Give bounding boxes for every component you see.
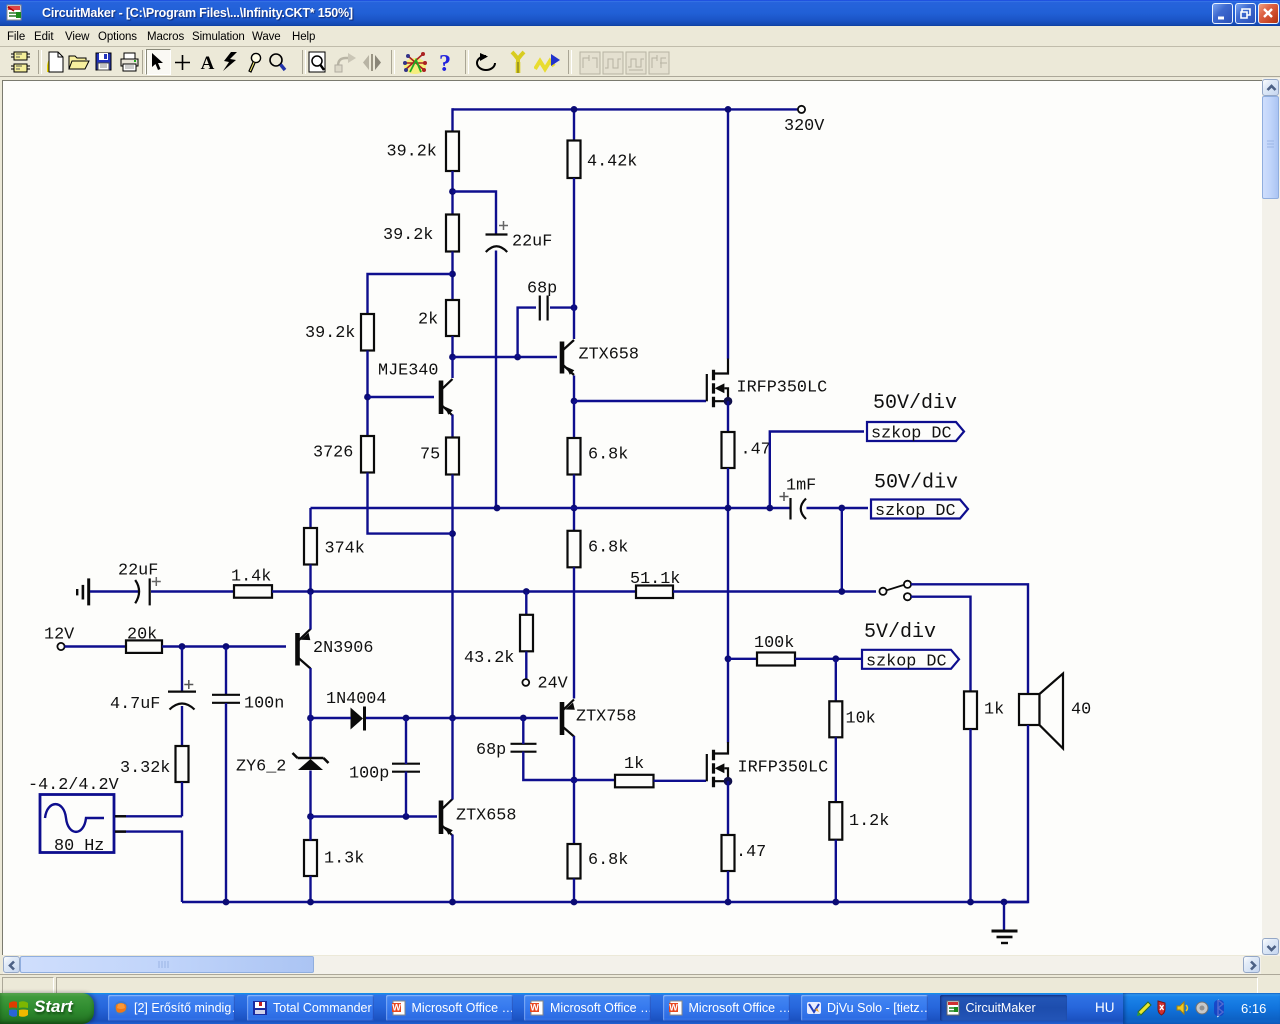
junction IRFP1 source [724, 397, 733, 406]
resistor R 1k output [964, 691, 977, 729]
junction y591 switch col [838, 588, 845, 595]
svg-text:10k: 10k [846, 710, 876, 729]
resistor R 2k [446, 300, 459, 336]
capacitor C 22uF input (polarized) [118, 562, 161, 606]
wire branch to C 22uF [453, 192, 497, 235]
svg-text:MJE340: MJE340 [378, 362, 438, 381]
junction rail 100n [223, 899, 230, 906]
scope flag szkop DC 2 [871, 500, 968, 522]
wire y508 rail [311, 507, 791, 509]
wire R1 to R2 [451, 171, 453, 215]
resistor R 6.8k first [568, 438, 581, 475]
wire ZTX658 emitter down to node [573, 376, 575, 402]
junction base line 100p [403, 813, 410, 820]
wire 2N3906 emitter up to y591 rail [309, 592, 311, 630]
svg-text:3726: 3726 [313, 444, 353, 463]
junction gate line colD [571, 777, 578, 784]
svg-text:4.42k: 4.42k [587, 153, 637, 172]
junction 4.7uF col [179, 643, 186, 650]
resistor R 51.1k [636, 586, 673, 599]
mosfet U IRFP350LC 1 [707, 358, 827, 407]
svg-text:50V/div: 50V/div [874, 472, 958, 495]
svg-text:W: W [392, 1003, 401, 1013]
wire szkop1 feed [770, 432, 864, 509]
wire 10k to 1.2k [835, 737, 837, 802]
svg-text:80 Hz: 80 Hz [54, 837, 104, 856]
source V1 sine [28, 776, 119, 856]
svg-text:22uF: 22uF [512, 233, 552, 252]
wire 100p col bottom [405, 772, 407, 817]
wire source minus terminal to bottom rail [114, 832, 182, 902]
svg-text:39.2k: 39.2k [305, 324, 355, 343]
svg-text:6.8k: 6.8k [588, 851, 628, 870]
resistor R 75 [446, 438, 459, 475]
wire 1k col to bottom rail [969, 729, 971, 902]
wire 6.8k1 top from emitter node [573, 401, 575, 439]
junction 68p tap [514, 354, 521, 361]
wire 1mF right to flag2 [807, 507, 869, 509]
wire ground to 22uF2 [90, 590, 140, 592]
wire 6.8k3 to bottom rail [573, 879, 575, 903]
junction base line 68p col [520, 715, 527, 722]
wire ZTX658b emitter to bottom rail [451, 835, 453, 903]
svg-text:1.2k: 1.2k [849, 812, 889, 831]
wire 68p col bottom to gate line [523, 752, 616, 781]
svg-text:75: 75 [420, 446, 440, 465]
resistor R 39.2k left [361, 314, 374, 351]
svg-text:IRFP350LC: IRFP350LC [738, 759, 829, 778]
svg-text:68p: 68p [527, 280, 557, 299]
wire 100k to flag3 junction [795, 658, 862, 660]
junction rail .47 [725, 899, 732, 906]
wire MJE340 emitter down [451, 415, 453, 439]
wire y591 rail right segment to switch [673, 590, 876, 592]
junction zener base line left [307, 813, 314, 820]
wire 75 down colA crossing y508 to 533.6 and on to y718 [451, 475, 453, 719]
capacitor C 1mF (polarized) [780, 477, 817, 520]
svg-text:szkop DC: szkop DC [875, 502, 956, 521]
svg-text:374k: 374k [325, 540, 365, 559]
resistor R 6.8k third [568, 844, 581, 879]
resistor R 3.32k [176, 746, 189, 782]
diode Z ZY6_2 zener [236, 753, 329, 777]
resistor R 6.8k second [568, 531, 581, 568]
wire MJE340 collector up [451, 357, 453, 378]
transistor Q ZTX658 bottom [441, 799, 516, 836]
svg-text:1k: 1k [984, 701, 1004, 720]
wire ZTX758 collector down [573, 736, 575, 780]
junction rail 6.8k3 [571, 899, 578, 906]
junction top rail colD [571, 106, 578, 113]
wire 1.3k top [309, 817, 311, 841]
svg-text:W: W [669, 1003, 678, 1013]
wire .47 to bottom rail [727, 871, 729, 902]
wire 100p col top [405, 718, 407, 764]
scrollbars [1262, 78, 1280, 956]
wire 2N3906 collector down to diode line [309, 668, 311, 718]
junction base line left [449, 354, 456, 361]
wire base of MJE340 [368, 396, 435, 398]
wire zener col bottom [309, 771, 311, 818]
svg-text:3.32k: 3.32k [120, 759, 170, 778]
scope flag szkop DC 1 [867, 422, 964, 444]
junction y591 43.2k col [523, 588, 530, 595]
wire 100n to bottom rail [225, 703, 227, 902]
wire 68p stub [518, 308, 536, 357]
junction 100n col [223, 643, 230, 650]
wire 4.7uF to 3.32k [181, 706, 183, 747]
svg-text:43.2k: 43.2k [464, 649, 514, 668]
svg-text:22uF: 22uF [118, 562, 158, 581]
junction 100k 10k col [832, 655, 839, 662]
wire colE drain up to rail [727, 109, 729, 358]
window chrome [0, 0, 1280, 26]
resistor R 39.2k top [446, 132, 459, 172]
transistor Q ZTX658 top [562, 340, 639, 375]
svg-text:100k: 100k [754, 634, 794, 653]
wire 6.8k1 to 6.8k2 [573, 475, 575, 532]
capacitor C 100n [212, 647, 284, 714]
junction ZTX658 emitter node [571, 398, 578, 405]
svg-text:6.8k: 6.8k [588, 539, 628, 558]
wire 1.3k to bottom rail [309, 876, 311, 902]
wire 841.8 col down to y591 rail [841, 508, 843, 592]
wire IRFP2 source to .47 [727, 781, 729, 835]
ground left [77, 578, 89, 605]
switch S1 [879, 581, 911, 601]
svg-text:50V/div: 50V/div [873, 392, 957, 415]
junction rail 1k [967, 899, 974, 906]
resistor R .47 top [722, 432, 735, 468]
svg-text:20k: 20k [127, 626, 157, 645]
junction 1mF-switch col [838, 505, 845, 512]
svg-text:51.1k: 51.1k [630, 570, 680, 589]
resistor R 1.3k [304, 840, 364, 876]
wire 10k col top [835, 659, 837, 702]
junction rail 1.3k [307, 899, 314, 906]
wire 374k col from y508 corner [309, 508, 311, 529]
taskbar [0, 993, 1280, 1024]
junction colA 3726 link [449, 530, 456, 537]
svg-text:100n: 100n [244, 695, 284, 714]
wire 6.8k3 top [573, 780, 575, 845]
wire switch top throw to speaker col [911, 584, 1028, 694]
junction base line colA [449, 715, 456, 722]
wire ZTX658b collector up to y718 [451, 718, 453, 800]
wire y591 rail left segment [272, 590, 637, 592]
svg-text:320V: 320V [784, 117, 824, 136]
svg-text:szkop DC: szkop DC [871, 425, 952, 444]
wire 68p col top [522, 718, 524, 744]
wire 3.32k to source top [181, 782, 183, 816]
resistor R 1.4k [234, 585, 272, 598]
svg-text:2k: 2k [418, 311, 438, 330]
wire .47 down colE to IRFP2 drain [727, 468, 729, 743]
wire R2 to 2k [451, 252, 453, 302]
transistor Q MJE340 [378, 362, 453, 416]
wire 1k to IRFP2 gate [654, 780, 707, 782]
node 24V terminal [522, 679, 529, 686]
svg-text:.47: .47 [741, 441, 771, 460]
junction colA to left branch [449, 271, 456, 278]
wire ZTX658 base line [453, 356, 558, 358]
capacitor C 100p [349, 764, 420, 784]
svg-text:100p: 100p [349, 765, 389, 784]
wire ZTX758 base line [365, 717, 559, 719]
resistor R 3726 [361, 436, 374, 473]
transistor Q ZTX758 [562, 700, 636, 737]
junction y591 374k col [307, 588, 314, 595]
junction base line 100p col [403, 715, 410, 722]
svg-text:1.3k: 1.3k [324, 850, 364, 869]
wire 2k to base line [451, 336, 453, 357]
svg-text:5V/div: 5V/div [864, 621, 936, 644]
svg-text:12V: 12V [44, 626, 74, 645]
svg-text:-4.2/4.2V: -4.2/4.2V [28, 776, 119, 795]
junction y508 szkop col [766, 505, 773, 512]
wire 3726 bottom to colA [368, 473, 453, 534]
resistor R 1k gate [615, 775, 654, 788]
wire bottom rail [182, 901, 1028, 903]
wire branch left to 39.2k left column [368, 274, 453, 315]
wire 12V to 20k [65, 645, 127, 647]
svg-text:39.2k: 39.2k [387, 143, 437, 162]
scope flag szkop DC 3 [862, 650, 959, 672]
diode D 1N4004 [326, 690, 386, 731]
wire zener col top [309, 718, 311, 757]
wire colA from rail to R1 [451, 108, 453, 132]
svg-text:68p: 68p [476, 741, 506, 760]
junction colD y508 [571, 505, 578, 512]
wire 374k to y591 rail [309, 565, 311, 592]
node 320V terminal [798, 106, 805, 113]
wire colD top from rail [573, 109, 575, 141]
svg-text:IRFP350LC: IRFP350LC [737, 379, 828, 398]
wire 43.2k to 24V terminal [525, 651, 527, 679]
svg-text:ZY6_2: ZY6_2 [236, 758, 286, 777]
junction top rail colE [725, 106, 732, 113]
resistor R 10k [829, 701, 842, 737]
junction rail ground [1001, 899, 1008, 906]
junction colA/22uF branch [449, 188, 456, 195]
svg-text:A: A [201, 53, 215, 71]
wire switch bottom throw to 1k col [911, 597, 971, 692]
svg-text:1N4004: 1N4004 [326, 690, 386, 709]
wire 20k to 2N3906 base [162, 645, 286, 647]
wire ZTX658b base line [311, 815, 438, 817]
capacitor C 68p bottom [476, 741, 537, 760]
junction colE 100k tap [725, 655, 732, 662]
mosfet U IRFP350LC 2 [707, 742, 828, 787]
junction diode line zener col [307, 715, 314, 722]
resistor R 374k [304, 528, 317, 565]
capacitor C 68p top [527, 280, 557, 321]
capacitor C 4.7uF (polarized) [110, 647, 196, 715]
wire speaker bottom to rail [1004, 725, 1028, 902]
svg-text:?: ? [439, 51, 451, 75]
svg-text:1mF: 1mF [786, 477, 816, 496]
svg-text:W: W [530, 1003, 539, 1013]
capacitor C 22uF (polarized) [486, 221, 553, 252]
wire 100k line [728, 658, 758, 660]
resistor R 100k [757, 653, 795, 666]
resistor R 4.42k [568, 141, 581, 179]
svg-text:ZTX658: ZTX658 [579, 346, 639, 365]
junction y508 colE [725, 505, 732, 512]
transistor Q 2N3906 [298, 629, 374, 669]
resistor R .47 bottom [722, 835, 735, 871]
junction IRFP2 source [724, 777, 733, 786]
wire 4.42k down to ZTX658 collector [573, 178, 575, 339]
speaker LS1 [1019, 674, 1091, 749]
svg-text:ZTX758: ZTX758 [576, 708, 636, 727]
svg-text:24V: 24V [538, 675, 568, 694]
junction rail ZTX658b [449, 899, 456, 906]
svg-text:2N3906: 2N3906 [313, 639, 373, 658]
wire 39.2kL to 3726 with base junction [366, 351, 368, 437]
resistor R 39.2k second [446, 215, 459, 252]
svg-text:ZTX658: ZTX658 [456, 807, 516, 826]
wire 22uF2 to 1.4k [151, 590, 235, 592]
wire 2N3906 collector to diode [311, 717, 352, 719]
svg-text:6.8k: 6.8k [588, 446, 628, 465]
wire 22uF bottom down to y508 rail [495, 251, 497, 509]
node 12V terminal [57, 643, 64, 650]
svg-text:39.2k: 39.2k [383, 226, 433, 245]
resistor R 20k [126, 640, 162, 653]
wire gate line to IRFP350LC 1 [574, 400, 706, 402]
wire top 320V rail [453, 108, 799, 110]
junction rail 1.2k [832, 899, 839, 906]
resistor R 1.2k [829, 802, 842, 840]
junction y508 22uF col [494, 505, 501, 512]
svg-text:1k: 1k [624, 755, 644, 774]
wire source plus terminal [114, 815, 182, 817]
svg-text:.47: .47 [736, 843, 766, 862]
ground right [992, 902, 1018, 943]
svg-text:40: 40 [1071, 701, 1091, 720]
wire 6.8k2 down to ZTX758 emitter [573, 567, 575, 698]
junction colD 68p [571, 304, 578, 311]
junction MJE340 base [364, 394, 371, 401]
svg-text:4.7uF: 4.7uF [110, 695, 160, 714]
wire 1.2k to bottom rail [835, 840, 837, 902]
wire 68p right plate to colD [550, 306, 574, 308]
svg-text:1.4k: 1.4k [231, 568, 271, 587]
wire source to .47 [727, 401, 729, 432]
svg-text:szkop DC: szkop DC [866, 653, 947, 672]
resistor R 43.2k [464, 592, 533, 669]
